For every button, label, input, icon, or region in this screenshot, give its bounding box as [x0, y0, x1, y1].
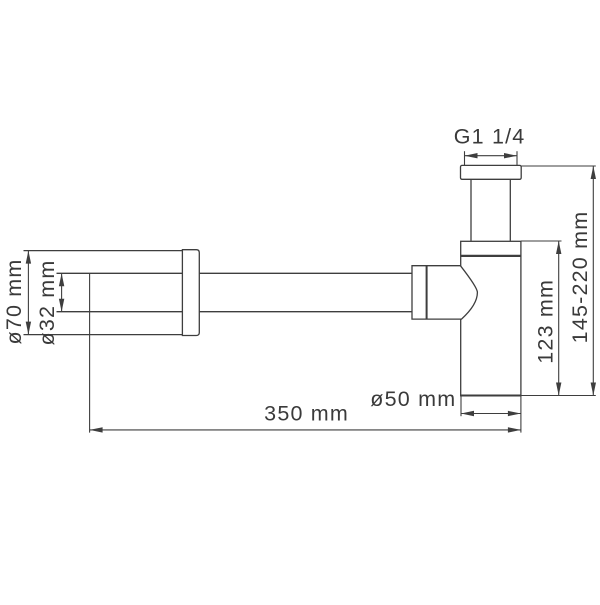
350 dimension line	[90, 429, 521, 431]
350 left arrowhead	[90, 427, 103, 432]
G1 1/4 left arrowhead	[465, 153, 478, 158]
diam70 dimension line	[27, 251, 29, 335]
G1 1/4 left extension line	[464, 151, 466, 165]
diam70 top arrowhead	[26, 251, 31, 264]
350 right arrowhead	[508, 427, 521, 432]
svg-text:123 mm: 123 mm	[533, 279, 557, 364]
inlet elbow with domed end	[412, 266, 477, 319]
123 top arrowhead	[556, 241, 561, 254]
wall escutcheon flange	[182, 250, 199, 336]
outer wall-tube top line	[24, 250, 184, 252]
diam50 left arrowhead	[461, 411, 474, 416]
diam50 left extension line	[460, 396, 462, 417]
diam32 bottom arrowhead	[59, 299, 64, 312]
body bottom thick edge	[460, 395, 521, 397]
top flange	[461, 165, 522, 179]
svg-text:ø70 mm: ø70 mm	[2, 258, 26, 344]
diam50 right arrowhead	[508, 411, 521, 416]
G1 1/4 right arrowhead	[504, 153, 517, 158]
123 top extension line	[521, 240, 562, 242]
trap body cylinder	[461, 241, 521, 395]
145-220 top arrowhead	[591, 166, 596, 179]
svg-text:350 mm: 350 mm	[264, 402, 349, 426]
G1 1/4 dimension line	[465, 155, 518, 157]
svg-text:ø32 mm: ø32 mm	[35, 259, 59, 345]
compression nut divider	[426, 266, 428, 319]
bottom extension line to right dims	[521, 395, 596, 397]
threaded pipe left line	[470, 179, 472, 241]
inner pipe bottom line	[57, 311, 413, 313]
diam32 dimension line	[61, 273, 63, 311]
svg-text:G1 1/4: G1 1/4	[454, 124, 526, 148]
svg-text:145-220 mm: 145-220 mm	[568, 211, 592, 344]
G1 1/4 right extension line	[516, 151, 518, 165]
diam50 dimension line	[461, 413, 521, 415]
right extension line for diam50 and 350	[520, 396, 522, 433]
body top joint thick line	[461, 255, 521, 257]
145-220 dimension line	[592, 166, 594, 396]
outer wall-tube bottom line	[24, 334, 184, 336]
145-220 bottom arrowhead	[591, 383, 596, 396]
350 left extension line	[89, 273, 91, 432]
threaded pipe right line	[509, 179, 511, 241]
svg-text:ø50 mm: ø50 mm	[370, 387, 456, 411]
145-220 top extension line	[521, 165, 596, 167]
123 bottom arrowhead	[556, 383, 561, 396]
diam32 top arrowhead	[59, 273, 64, 286]
diam70 bottom arrowhead	[26, 322, 31, 335]
inner pipe top line	[57, 272, 413, 274]
123 dimension line	[558, 241, 560, 396]
